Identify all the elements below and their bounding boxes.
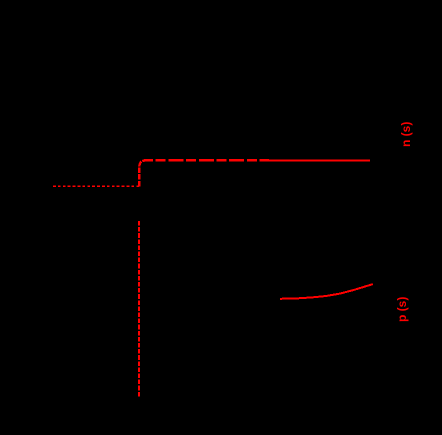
svg-text:n (s): n (s): [399, 122, 413, 147]
svg-text:p (s): p (s): [395, 297, 409, 322]
